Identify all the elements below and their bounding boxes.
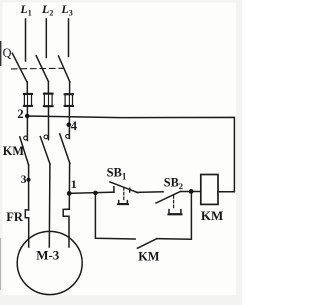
svg-text:KM: KM [201, 208, 223, 223]
svg-text:Q: Q [3, 46, 12, 60]
svg-text:M-3: M-3 [36, 247, 60, 262]
svg-text:KM: KM [3, 144, 25, 158]
svg-text:FR: FR [6, 210, 24, 224]
svg-text:1: 1 [71, 177, 77, 191]
svg-text:2: 2 [17, 107, 23, 121]
svg-text:4: 4 [71, 119, 78, 133]
svg-text:3: 3 [21, 174, 27, 186]
svg-text:KM: KM [138, 249, 160, 263]
